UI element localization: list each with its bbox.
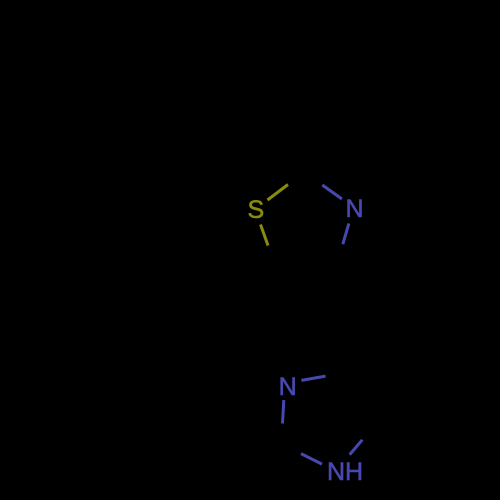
- bond N3-C4 thiazole (nitrogen half, blue): [343, 223, 349, 244]
- bond N1-C2 imidazole (nitrogen half, blue): [301, 454, 322, 465]
- bond N1-C5 imidazole (nitrogen half, blue): [350, 440, 363, 455]
- svg-text:NH: NH: [327, 458, 363, 486]
- bond N3-C2 imidazole (nitrogen half, blue): [283, 400, 284, 423]
- svg-text:S: S: [247, 196, 264, 224]
- bond S-C2 (sulfur half, olive): [268, 185, 289, 201]
- svg-text:N: N: [345, 195, 363, 223]
- bond S-C5 (sulfur half, olive): [261, 225, 269, 246]
- bond C2-N3 thiazole (nitrogen half, blue): [322, 185, 342, 199]
- svg-text:N: N: [279, 373, 297, 401]
- bond N3-C4 imidazole (nitrogen half, blue): [301, 376, 325, 380]
